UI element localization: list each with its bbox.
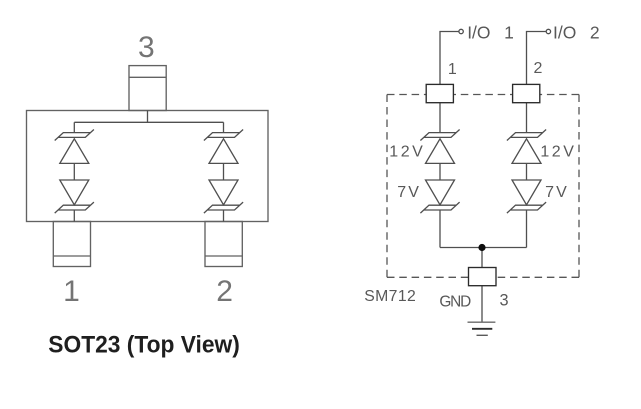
wire I/O 1 terminal	[440, 32, 459, 85]
svg-text:7V: 7V	[545, 184, 569, 201]
svg-text:SOT23 (Top View): SOT23 (Top View)	[48, 333, 240, 359]
svg-text:1: 1	[63, 275, 80, 308]
diode D3b triangle 7V	[426, 180, 455, 205]
terminal circle I/O 2	[546, 29, 550, 33]
svg-text:1: 1	[504, 22, 514, 42]
wire header	[74, 121, 223, 123]
wire common join	[440, 247, 527, 249]
dashed package boundary	[387, 95, 579, 278]
wire right stack to pin2	[223, 210, 225, 222]
wire box2 to D4	[526, 103, 528, 133]
svg-text:2: 2	[534, 60, 543, 77]
terminal circle I/O 1	[459, 29, 463, 33]
diode D1b cathode bar	[55, 202, 94, 213]
svg-text:12V: 12V	[389, 143, 425, 160]
svg-text:I/O: I/O	[467, 22, 490, 42]
wire left stack to pin1	[73, 210, 75, 222]
svg-text:3: 3	[138, 31, 155, 64]
wire junction to box3	[481, 248, 483, 268]
junction node dot	[478, 244, 485, 251]
svg-text:SM712: SM712	[364, 288, 416, 305]
pin box 3	[469, 268, 497, 286]
svg-text:12V: 12V	[540, 144, 576, 161]
diode D1a triangle	[60, 139, 89, 164]
wire mid left branch	[439, 163, 441, 180]
svg-text:7V: 7V	[397, 184, 421, 201]
pin 1 pad	[53, 222, 90, 267]
wire drop left	[73, 122, 75, 133]
pin 2 solder line	[205, 255, 242, 257]
zener D4a triangle 12V	[512, 139, 541, 164]
svg-text:3: 3	[499, 292, 508, 310]
zener D4a cathode bar	[507, 130, 546, 141]
ground symbol	[468, 322, 496, 335]
wire box1 to D3	[439, 103, 441, 133]
wire I/O 2 terminal	[527, 32, 547, 85]
pin 3 tab	[129, 66, 166, 111]
wire mid left stack	[73, 163, 75, 180]
svg-text:I/O: I/O	[553, 22, 576, 42]
diode D2b triangle	[209, 180, 238, 205]
zener D3a cathode bar	[420, 130, 459, 141]
wire mid right stack	[223, 163, 225, 180]
wire box3 to ground	[481, 286, 483, 323]
pin box 2	[513, 84, 540, 102]
diode D4b triangle 7V	[512, 180, 541, 205]
diode D2a cathode bar	[204, 130, 243, 141]
wire pin3 down	[147, 111, 149, 123]
svg-text:2: 2	[590, 22, 600, 42]
diode D1b triangle	[60, 180, 89, 205]
pin 2 pad	[205, 222, 242, 267]
diode D4b cathode bar	[507, 202, 546, 213]
wire drop right	[223, 122, 225, 133]
pin box 1	[426, 84, 453, 102]
diode D3b cathode bar	[420, 202, 459, 213]
svg-text:1: 1	[448, 61, 457, 78]
wire mid right branch	[526, 163, 528, 180]
diode D1a cathode bar	[55, 130, 94, 141]
svg-text:2: 2	[216, 275, 233, 308]
wire left branch down	[439, 210, 441, 248]
diode D2a triangle	[209, 139, 238, 164]
pin 3 tab solder line	[129, 76, 166, 78]
zener D3a triangle 12V	[426, 139, 455, 164]
pin 1 solder line	[53, 255, 90, 257]
diode D2b cathode bar	[204, 202, 243, 213]
package body U1	[27, 111, 269, 222]
wire right branch down	[526, 210, 528, 248]
svg-text:GND: GND	[439, 293, 471, 310]
